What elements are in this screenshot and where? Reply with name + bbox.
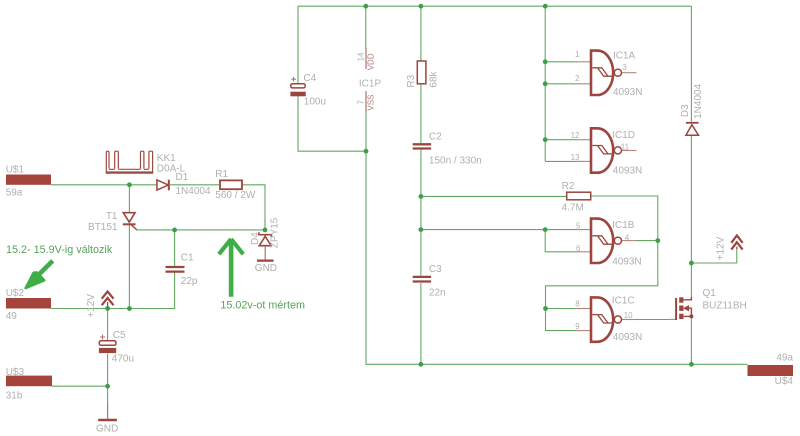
svg-text:470u: 470u [112, 354, 134, 365]
wire U$1 row [51, 184, 157, 186]
svg-text:BT151: BT151 [88, 222, 118, 233]
supply symbol +12V at Q1 [731, 235, 742, 249]
junction R1 D4 node [263, 228, 268, 233]
wire T1 gate row to D4 [137, 229, 266, 231]
wire R2 left [421, 195, 567, 197]
junction top rail at R3 line [419, 4, 424, 9]
junction R2 left node [419, 194, 424, 199]
junction +12V C5 node [105, 306, 110, 311]
svg-text:14: 14 [357, 52, 366, 61]
wire R3 top feed [420, 6, 422, 61]
svg-text:U$2: U$2 [6, 288, 25, 299]
svg-text:U$1: U$1 [6, 165, 25, 176]
pin stub IC1A pin2 [576, 83, 590, 85]
svg-text:49a: 49a [776, 353, 793, 364]
wire U$3 row [52, 385, 108, 387]
svg-text:IC1B: IC1B [612, 220, 635, 231]
svg-text:8: 8 [575, 300, 580, 309]
svg-text:68k: 68k [429, 70, 440, 87]
mosfet Q1 BUZ11BH [676, 297, 693, 320]
svg-text:C2: C2 [429, 132, 442, 143]
diode D1 1N4004 [157, 180, 169, 191]
junction U$3 GND node [105, 384, 110, 389]
pin stub VDD pin14 [365, 48, 367, 69]
svg-text:R3: R3 [406, 74, 417, 87]
svg-text:1: 1 [575, 50, 580, 59]
junction U$1 T1 node [127, 182, 132, 187]
svg-text:C4: C4 [303, 73, 316, 84]
svg-text:11: 11 [621, 143, 630, 152]
pin stub D4 to GND2 [264, 246, 266, 260]
wire C2 to C3 [420, 150, 422, 276]
resistor R1 [220, 180, 242, 189]
svg-text:4093N: 4093N [612, 256, 641, 267]
nand gate IC1D [591, 128, 622, 172]
wire R3 to C2 [420, 84, 422, 144]
wire GND stem [107, 386, 109, 405]
zener diode D4 ZPY15 [259, 232, 272, 246]
junction Q1 source ground rail [689, 362, 694, 367]
connector U$3 [6, 376, 52, 387]
svg-text:12: 12 [571, 131, 580, 140]
ground symbol GND1 [98, 419, 117, 421]
pin stub IC1D pin12 [576, 139, 590, 141]
annotation arrow up at D4 [219, 239, 243, 297]
nand gate IC1B [591, 219, 622, 263]
svg-text:6: 6 [576, 244, 581, 253]
junction IC1A pin2 [543, 81, 548, 86]
svg-text:U$3: U$3 [6, 367, 25, 378]
nand gate IC1A [591, 51, 622, 95]
wire IC1B output [636, 240, 658, 242]
svg-text:4.7M: 4.7M [562, 202, 584, 213]
svg-text:ZPY15: ZPY15 [270, 217, 281, 248]
svg-text:150n / 330n: 150n / 330n [429, 155, 482, 166]
connector U$2 [6, 298, 51, 309]
junction top rail at gate feed [543, 4, 548, 9]
junction IC1A pin1 [543, 59, 548, 64]
svg-text:BUZ11BH: BUZ11BH [703, 301, 747, 312]
wire IC1B output loop to IC1C inputs [546, 241, 658, 331]
pin stub VSS pin7 [365, 91, 367, 112]
capacitor C2 [413, 144, 431, 148]
svg-text:IC1D: IC1D [612, 130, 635, 141]
wire top VDD rail [298, 5, 691, 7]
svg-text:R1: R1 [215, 169, 228, 180]
wire C4 top branch [297, 6, 299, 83]
svg-text:GND: GND [96, 424, 118, 435]
resistor R3 [417, 61, 426, 84]
wire C1 top [174, 230, 176, 266]
svg-text:1N4004: 1N4004 [176, 186, 211, 197]
pin stub Q1 gate [669, 318, 676, 320]
svg-text:4093N: 4093N [613, 165, 642, 176]
pin stub IC1A output pin3 [622, 72, 637, 74]
wire C3 to ground rail [420, 283, 422, 364]
wire bottom ground rail [366, 363, 748, 365]
svg-text:KK1: KK1 [157, 153, 176, 164]
wire +12V tap to Q1 node [691, 248, 736, 264]
wire D1 to R1 [170, 184, 220, 186]
svg-text:10: 10 [624, 311, 633, 320]
connector U$4 [748, 365, 794, 376]
wire R1 right down to D4 node [242, 185, 265, 230]
svg-text:5: 5 [576, 221, 581, 230]
svg-text:C3: C3 [429, 264, 442, 275]
pin stub IC1C pin8 [576, 308, 590, 310]
svg-text:D3: D3 [680, 104, 691, 117]
junction C1 top node [172, 228, 177, 233]
svg-text:4093N: 4093N [613, 87, 642, 98]
pin stub IC1B pin6 [576, 251, 590, 253]
svg-text:U$4: U$4 [775, 376, 794, 387]
wire R2 right to IC1B output node [591, 196, 658, 241]
svg-text:9: 9 [575, 322, 580, 331]
pin stub IC1C output pin10 [622, 319, 637, 321]
junction top rail at VSS line [363, 4, 368, 9]
svg-text:31b: 31b [6, 391, 23, 402]
svg-text:+12V: +12V [86, 294, 97, 318]
svg-text:59a: 59a [6, 187, 23, 198]
junction IC1C pin8 [543, 306, 548, 311]
wire IC1A pin1 [545, 61, 576, 63]
capacitor C3 [413, 277, 431, 282]
wire IC1D pin13 [545, 160, 576, 162]
junction IC1B pin5 [543, 227, 548, 232]
svg-text:D4: D4 [250, 232, 261, 245]
svg-text:4093N: 4093N [613, 332, 642, 343]
svg-text:VSS: VSS [366, 95, 375, 111]
svg-text:C5: C5 [113, 330, 126, 341]
wire IC1A pin2 [545, 83, 576, 85]
wire IC1C pin8 [546, 308, 577, 310]
pin stub GND1 [107, 404, 109, 419]
svg-text:IC1P: IC1P [359, 78, 382, 89]
annotation arrow down-left [26, 261, 53, 288]
wire IC1B pin5 [421, 229, 577, 231]
wire IC1D pin12 [545, 139, 576, 141]
wire IC1B pin6 loop [545, 230, 576, 252]
polarized capacitor C4 [290, 77, 305, 96]
svg-text:49: 49 [6, 311, 18, 322]
wire T1 cathode down to +12V rail [128, 225, 130, 309]
pin stub IC1C pin9 [576, 330, 590, 332]
resistor R2 [567, 192, 591, 200]
wire VDD pin stub top [365, 6, 367, 48]
pin stub IC1B pin5 [576, 229, 590, 231]
junction +12V Q1 node [689, 261, 694, 266]
wire VSS node down to ground rail [365, 112, 367, 365]
svg-text:C1: C1 [181, 252, 194, 263]
diode D3 1N4004 [686, 123, 699, 135]
junction C3 ground rail [419, 362, 424, 367]
svg-text:7: 7 [357, 100, 366, 105]
svg-text:GND: GND [255, 263, 277, 274]
wire junction to T1 anode [128, 185, 130, 213]
svg-text:22n: 22n [429, 288, 446, 299]
svg-text:R2: R2 [562, 181, 575, 192]
svg-text:100u: 100u [304, 97, 326, 108]
junction T1 cathode rail [127, 306, 132, 311]
wire C5 top [107, 309, 109, 341]
pin stub IC1D pin13 [576, 160, 590, 162]
svg-text:22p: 22p [181, 276, 198, 287]
svg-text:VDD: VDD [366, 53, 375, 70]
junction pin5 node [419, 227, 424, 232]
wire C5 bottom [107, 354, 109, 387]
junction IC1D pin12 [543, 137, 548, 142]
ground symbol GND2 at D4 [257, 259, 274, 261]
junction IC1B output [655, 238, 660, 243]
wire Q1 source to ground rail [690, 317, 692, 365]
wire right rail to D3 cathode [690, 6, 692, 122]
svg-text:2: 2 [575, 74, 580, 83]
pin stub IC1B output pin4 [622, 240, 637, 242]
pin stub IC1D output pin11 [622, 150, 637, 152]
svg-text:IC1A: IC1A [613, 50, 636, 61]
wire C1 bottom and +12V rail to U$2 [51, 273, 175, 309]
svg-text:560 / 2W: 560 / 2W [215, 190, 256, 201]
junction VSS node [364, 149, 369, 154]
thyristor T1 BT151 [123, 213, 137, 230]
wire D3 anode down to Q1 drain [690, 136, 692, 297]
svg-text:4: 4 [625, 234, 630, 243]
nand gate IC1C [591, 297, 622, 341]
wire gate input feed line [544, 6, 546, 161]
connector U$1 [6, 175, 51, 185]
wire IC1C output to Q1 gate [636, 319, 669, 321]
svg-text:D1: D1 [176, 172, 189, 183]
heatsink KK1 [106, 151, 154, 172]
pin stub IC1A pin1 [576, 61, 590, 63]
supply symbol +12V at U$2 [102, 292, 114, 309]
svg-text:15.2- 15.9V-ig változik: 15.2- 15.9V-ig változik [6, 244, 113, 256]
svg-text:15.02v-ot mértem: 15.02v-ot mértem [220, 300, 305, 312]
wire C4 bottom to VSS node [298, 96, 366, 151]
svg-text:IC1C: IC1C [612, 296, 635, 307]
svg-text:Q1: Q1 [703, 288, 717, 299]
svg-text:+12V: +12V [715, 236, 726, 260]
svg-text:13: 13 [571, 153, 580, 162]
svg-text:1N4004: 1N4004 [693, 83, 704, 118]
svg-text:T1: T1 [106, 211, 118, 222]
capacitor C1 [166, 267, 185, 272]
polarized capacitor C5 [99, 335, 116, 354]
svg-text:3: 3 [622, 63, 627, 72]
